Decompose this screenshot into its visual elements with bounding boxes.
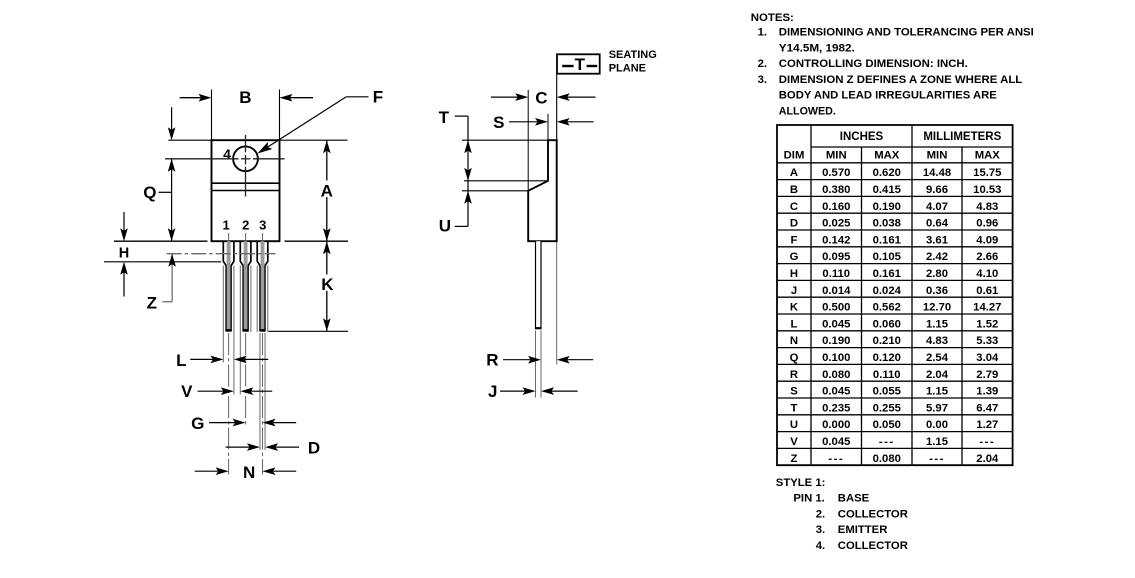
svg-text:0.080: 0.080 [822,369,850,381]
svg-text:PLANE: PLANE [609,63,646,75]
svg-text:1.39: 1.39 [976,386,998,398]
svg-text:0.161: 0.161 [873,234,901,246]
svg-text:0.235: 0.235 [822,402,850,414]
svg-text:R: R [486,350,498,369]
svg-text:3: 3 [259,218,266,233]
svg-text:U: U [790,419,798,431]
svg-text:0.000: 0.000 [822,419,850,431]
svg-text:1.52: 1.52 [976,318,998,330]
svg-text:0.014: 0.014 [822,285,851,297]
svg-text:V: V [181,382,193,401]
svg-text:1: 1 [222,218,229,233]
svg-text:D: D [790,218,798,230]
svg-text:H: H [790,268,798,280]
svg-text:T: T [439,108,450,127]
svg-text:SEATING: SEATING [609,49,657,61]
svg-text:2.04: 2.04 [926,369,949,381]
svg-text:DIMENSIONING AND TOLERANCING P: DIMENSIONING AND TOLERANCING PER ANSI [779,27,1034,39]
svg-text:15.75: 15.75 [973,167,1001,179]
svg-text:L: L [176,351,186,370]
svg-text:1.15: 1.15 [926,386,948,398]
svg-text:3.61: 3.61 [926,234,948,246]
svg-text:DIM: DIM [784,150,805,162]
svg-text:MAX: MAX [874,150,900,162]
svg-text:6.47: 6.47 [976,402,998,414]
svg-text:Q: Q [790,352,799,364]
svg-text:0.61: 0.61 [976,285,998,297]
svg-text:4.: 4. [816,540,825,552]
svg-text:T: T [791,402,798,414]
svg-text:K: K [790,302,799,314]
svg-text:F: F [791,234,798,246]
svg-text:2.80: 2.80 [926,268,948,280]
svg-text:1.15: 1.15 [926,318,948,330]
svg-text:2.: 2. [816,508,825,520]
svg-text:0.415: 0.415 [873,184,901,196]
svg-text:BODY AND LEAD IRREGULARITIES A: BODY AND LEAD IRREGULARITIES ARE [779,90,997,102]
svg-text:NOTES:: NOTES: [751,12,794,24]
svg-text:4: 4 [223,146,231,162]
svg-text:COLLECTOR: COLLECTOR [838,540,908,552]
svg-text:0.00: 0.00 [926,419,948,431]
svg-text:0.038: 0.038 [873,218,901,230]
svg-text:0.050: 0.050 [873,419,901,431]
svg-text:C: C [790,201,798,213]
svg-text:0.024: 0.024 [873,285,902,297]
svg-text:4.83: 4.83 [926,335,948,347]
svg-text:0.045: 0.045 [822,386,850,398]
svg-text:0.120: 0.120 [873,352,901,364]
svg-text:2.: 2. [758,58,768,70]
svg-text:U: U [439,217,451,236]
svg-text:2: 2 [242,218,249,233]
svg-text:0.160: 0.160 [822,201,850,213]
svg-text:DIMENSION Z DEFINES A ZONE WHE: DIMENSION Z DEFINES A ZONE WHERE ALL [779,74,1023,86]
svg-text:0.190: 0.190 [873,201,901,213]
svg-text:0.190: 0.190 [822,335,850,347]
svg-text:T: T [575,55,586,74]
svg-text:2.79: 2.79 [976,369,998,381]
svg-text:0.380: 0.380 [822,184,850,196]
svg-text:Z: Z [147,294,157,313]
svg-text:EMITTER: EMITTER [838,524,888,536]
svg-text:4.10: 4.10 [976,268,998,280]
svg-text:2.04: 2.04 [976,453,999,465]
svg-text:F: F [373,88,383,107]
svg-text:Y14.5M, 1982.: Y14.5M, 1982. [779,42,855,54]
svg-text:G: G [191,414,204,433]
svg-text:3.04: 3.04 [976,352,999,364]
svg-text:0.095: 0.095 [822,251,850,263]
svg-text:L: L [791,318,798,330]
svg-text:0.562: 0.562 [873,302,901,314]
svg-text:INCHES: INCHES [840,131,884,143]
svg-text:5.33: 5.33 [976,335,998,347]
svg-text:G: G [790,251,799,263]
svg-text:MAX: MAX [975,150,1001,162]
svg-text:N: N [790,335,798,347]
svg-text:A: A [790,167,798,179]
svg-text:J: J [791,285,797,297]
svg-text:4.07: 4.07 [926,201,948,213]
svg-text:0.620: 0.620 [873,167,901,179]
svg-text:0.105: 0.105 [873,251,901,263]
svg-text:S: S [790,386,798,398]
svg-text:N: N [243,463,255,482]
svg-text:0.500: 0.500 [822,302,850,314]
svg-text:1.27: 1.27 [976,419,998,431]
svg-text:BASE: BASE [838,493,870,505]
svg-text:1.15: 1.15 [926,436,948,448]
svg-text:0.110: 0.110 [822,268,850,280]
svg-text:3.: 3. [816,524,825,536]
svg-text:2.54: 2.54 [926,352,949,364]
svg-text:0.025: 0.025 [822,218,850,230]
svg-text:0.161: 0.161 [873,268,901,280]
svg-text:12.70: 12.70 [923,302,951,314]
svg-text:4.83: 4.83 [976,201,998,213]
svg-text:---: --- [979,436,995,448]
svg-text:0.080: 0.080 [873,453,901,465]
svg-text:J: J [488,382,497,401]
svg-text:0.96: 0.96 [976,218,998,230]
svg-text:V: V [790,436,798,448]
svg-text:B: B [239,88,251,107]
svg-text:2.42: 2.42 [926,251,948,263]
svg-text:0.142: 0.142 [822,234,850,246]
svg-text:D: D [308,438,320,457]
svg-text:ALLOWED.: ALLOWED. [779,106,836,118]
svg-text:0.36: 0.36 [926,285,948,297]
svg-text:PIN 1.: PIN 1. [793,493,824,505]
svg-text:4.09: 4.09 [976,234,998,246]
svg-text:0.060: 0.060 [873,318,901,330]
svg-text:10.53: 10.53 [973,184,1001,196]
svg-text:C: C [535,88,547,107]
svg-text:3.: 3. [758,74,768,86]
svg-text:---: --- [828,453,844,465]
svg-text:0.100: 0.100 [822,352,850,364]
svg-text:S: S [493,113,504,132]
svg-text:H: H [119,246,129,262]
svg-text:5.97: 5.97 [926,402,948,414]
svg-text:STYLE 1:: STYLE 1: [776,477,826,489]
svg-text:Z: Z [791,453,798,465]
svg-text:14.27: 14.27 [973,302,1001,314]
svg-text:---: --- [879,436,895,448]
svg-text:9.66: 9.66 [926,184,948,196]
svg-text:0.055: 0.055 [873,386,901,398]
svg-text:K: K [321,275,334,294]
svg-text:MILLIMETERS: MILLIMETERS [923,131,1001,143]
svg-text:MIN: MIN [927,150,948,162]
svg-text:0.570: 0.570 [822,167,850,179]
svg-text:A: A [321,181,333,200]
svg-text:0.045: 0.045 [822,436,850,448]
svg-text:1.: 1. [758,27,768,39]
svg-text:0.64: 0.64 [926,218,949,230]
svg-text:R: R [790,369,798,381]
svg-text:---: --- [929,453,945,465]
svg-text:0.045: 0.045 [822,318,850,330]
svg-text:0.110: 0.110 [873,369,901,381]
svg-text:COLLECTOR: COLLECTOR [838,508,908,520]
svg-text:MIN: MIN [826,150,847,162]
svg-text:0.255: 0.255 [873,402,901,414]
svg-text:2.66: 2.66 [976,251,998,263]
svg-text:0.210: 0.210 [873,335,901,347]
svg-text:B: B [790,184,798,196]
svg-text:Q: Q [143,183,156,202]
svg-text:CONTROLLING DIMENSION: INCH.: CONTROLLING DIMENSION: INCH. [779,58,968,70]
svg-text:14.48: 14.48 [923,167,951,179]
